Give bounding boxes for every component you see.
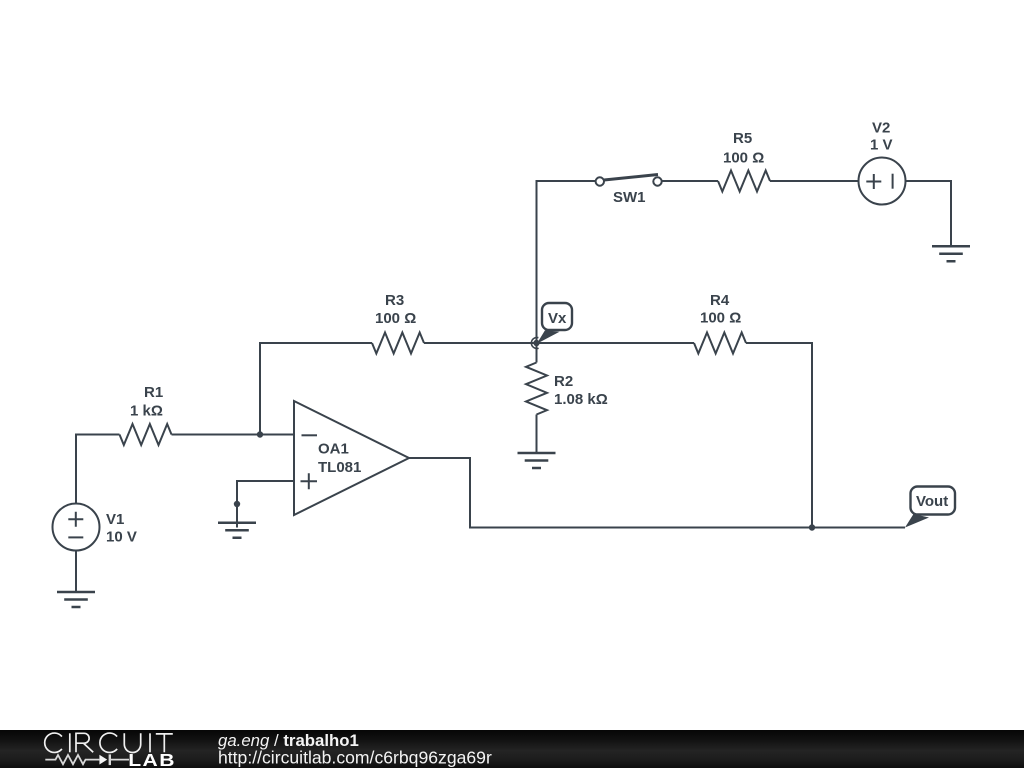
switch SW1 [596, 175, 662, 186]
ground below V2 [932, 246, 970, 261]
wire R2 to ground [536, 415, 538, 454]
svg-text:R1: R1 [144, 384, 163, 401]
wire V1 top to R1 [76, 435, 120, 505]
resistor R1 [120, 424, 172, 445]
svg-text:R4: R4 [710, 292, 730, 309]
svg-text:R2: R2 [554, 373, 573, 390]
svg-text:1 V: 1 V [870, 137, 893, 154]
wire R1 to op-amp minus input [172, 434, 295, 436]
svg-text:10 V: 10 V [106, 529, 137, 546]
svg-text:LAB: LAB [128, 751, 176, 768]
wire R4 to output node [746, 343, 812, 528]
svg-text:1.08 kΩ: 1.08 kΩ [554, 391, 608, 408]
wire R3 to Vx node and on to R4 [424, 342, 694, 344]
svg-text:Vout: Vout [916, 493, 948, 510]
node junction output/R4 [809, 524, 815, 530]
svg-text:1 kΩ: 1 kΩ [130, 403, 163, 420]
wire V2 to ground [906, 181, 952, 246]
svg-text:100 Ω: 100 Ω [700, 310, 741, 327]
op-amp OA1 [294, 401, 409, 515]
node Vout flag [905, 487, 955, 528]
node Vx flag [531, 303, 572, 348]
svg-text:http://circuitlab.com/c6rbq96z: http://circuitlab.com/c6rbq96zga69r [218, 748, 492, 768]
svg-text:100 Ω: 100 Ω [723, 150, 764, 167]
resistor R3 [372, 333, 424, 354]
wire op-amp output to Vout [409, 458, 905, 528]
svg-text:SW1: SW1 [613, 189, 646, 206]
voltage source V2 [859, 158, 906, 205]
svg-text:100 Ω: 100 Ω [375, 310, 416, 327]
wire V1 to ground [75, 551, 77, 593]
resistor R4 [694, 333, 746, 354]
svg-text:R5: R5 [733, 130, 752, 147]
svg-text:OA1: OA1 [318, 441, 349, 458]
svg-text:R3: R3 [385, 292, 404, 309]
node junction on plus input ground wire [234, 501, 240, 507]
ground below V1 [57, 592, 95, 607]
ground below R2 [518, 453, 556, 468]
svg-text:V1: V1 [106, 511, 124, 528]
wire switch to R5 [662, 180, 718, 182]
logo resistor-diode glyph [45, 754, 129, 765]
wire Vx node up and to switch [537, 181, 596, 343]
svg-text:V2: V2 [872, 120, 890, 137]
CircuitLab logo CIRCUIT (drawn strokes) [45, 733, 173, 752]
ground at plus input [218, 523, 256, 538]
resistor R5 [718, 171, 770, 192]
voltage source V1 [53, 504, 100, 551]
footer bar [0, 730, 1024, 768]
node junction Vx [533, 340, 539, 346]
svg-text:Vx: Vx [548, 310, 567, 327]
wire R5 to V2 [770, 180, 859, 182]
node junction at minus input [257, 431, 263, 437]
resistor R2 [526, 363, 547, 415]
wire R3 left vertical [260, 343, 372, 435]
svg-text:TL081: TL081 [318, 459, 361, 476]
wire plus input to ground [237, 481, 294, 528]
wire Vx down to R2 [536, 343, 538, 363]
